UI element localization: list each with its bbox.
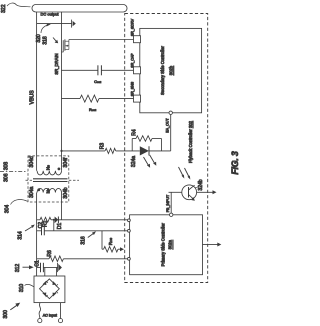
pin SR_CAP xyxy=(134,67,141,74)
svg-text:306: 306 xyxy=(4,173,10,182)
pin SR_SNS xyxy=(134,95,141,102)
diode bridge TL xyxy=(43,281,47,285)
resistor R1 xyxy=(40,217,51,222)
transistor phototransistor 324b xyxy=(182,185,197,200)
flyback controller dashed box 302 xyxy=(125,14,208,283)
diode bars xyxy=(46,281,48,283)
junction dot snubber xyxy=(53,219,55,221)
diode bridge TR xyxy=(52,281,56,285)
svg-text:SR_DRAIN: SR_DRAIN xyxy=(54,53,59,74)
svg-text:Rout: Rout xyxy=(89,107,96,112)
bridge diamond xyxy=(40,279,60,299)
svg-text:R6: R6 xyxy=(47,250,53,257)
svg-text:304d: 304d xyxy=(29,156,35,167)
winding Np (primary) xyxy=(37,188,61,192)
svg-text:D1: D1 xyxy=(57,223,63,230)
svg-text:C1: C1 xyxy=(35,260,41,267)
svg-text:R3: R3 xyxy=(100,143,106,150)
diode bridge BR xyxy=(53,293,57,297)
svg-text:304a: 304a xyxy=(29,187,35,198)
wire feedback main xyxy=(62,150,106,152)
polarity dot secondary xyxy=(58,168,61,171)
primary side controller box 302a xyxy=(130,215,203,275)
wire primary left terminal xyxy=(36,193,38,277)
svg-text:VBUS: VBUS xyxy=(30,90,36,105)
pin SR_GDRV xyxy=(134,36,141,43)
polarity dot primary xyxy=(37,188,40,191)
gate lead to rail xyxy=(62,51,64,53)
pin EA_OUT node xyxy=(169,111,172,114)
capacitor C2 branch xyxy=(53,220,55,231)
wire to ground (top) xyxy=(37,23,72,25)
pin primary 1 xyxy=(127,219,130,222)
svg-text:RCS: RCS xyxy=(108,238,113,245)
diode D1 xyxy=(55,217,59,224)
svg-text:314: 314 xyxy=(18,231,24,240)
svg-text:316: 316 xyxy=(80,236,86,245)
svg-text:C2: C2 xyxy=(38,222,44,229)
leader arrow 318 xyxy=(53,38,56,42)
resistor R3 xyxy=(105,148,116,153)
bulk stub with arrow xyxy=(65,45,69,47)
wire SR_GDRV xyxy=(69,39,134,41)
svg-text:DC output: DC output xyxy=(40,12,59,17)
transformer core xyxy=(33,178,68,180)
pin connector vertical xyxy=(68,40,70,50)
wire phototransistor right with arrow xyxy=(197,191,213,193)
diode bridge BL xyxy=(42,293,46,297)
arrow output right xyxy=(203,244,218,246)
winding Ns (secondary) xyxy=(37,171,61,175)
svg-text:308: 308 xyxy=(4,162,10,171)
op-amp? no : secondary side controller box U302b xyxy=(140,28,202,112)
svg-text:Primary Side Controller: Primary Side Controller xyxy=(161,222,166,266)
leader 320 xyxy=(41,25,48,33)
AC terminal left xyxy=(38,319,42,323)
svg-text:FIG. 3: FIG. 3 xyxy=(230,151,240,175)
svg-text:Flyback Controller 302: Flyback Controller 302 xyxy=(188,120,193,163)
bridge top leads xyxy=(44,268,46,277)
svg-text:R4: R4 xyxy=(132,129,138,136)
svg-text:318: 318 xyxy=(42,36,48,45)
svg-text:AC input: AC input xyxy=(43,313,57,317)
svg-text:304f: 304f xyxy=(63,157,69,167)
source stub xyxy=(65,49,69,51)
phototransistor light arrows xyxy=(179,167,183,176)
ground (top) xyxy=(71,20,73,28)
svg-text:322: 322 xyxy=(1,4,7,13)
svg-text:312: 312 xyxy=(15,264,21,273)
svg-text:324a: 324a xyxy=(131,156,137,167)
junction dot rail/feedback wire xyxy=(60,150,62,152)
svg-text:SR_CAP: SR_CAP xyxy=(131,53,135,68)
svg-text:SR_SNS: SR_SNS xyxy=(131,81,135,96)
svg-text:302b: 302b xyxy=(169,65,174,75)
AC terminal right xyxy=(58,319,62,323)
wire primary right terminal xyxy=(61,193,63,220)
svg-text:SR_GDRV: SR_GDRV xyxy=(131,18,135,36)
svg-text:Secondary Side Controller: Secondary Side Controller xyxy=(160,46,165,95)
pin primary 3 xyxy=(127,257,130,260)
svg-text:324b: 324b xyxy=(198,179,204,190)
wire EA_OUT vertical xyxy=(170,115,172,151)
drain stub xyxy=(65,40,69,42)
svg-text:NS: NS xyxy=(46,165,51,170)
gate bar xyxy=(62,40,64,52)
resistor Rout xyxy=(80,95,99,102)
svg-text:310: 310 xyxy=(19,284,25,293)
capacitor Cout xyxy=(97,65,99,75)
svg-text:320: 320 xyxy=(36,34,42,43)
isolation barrier dashes left xyxy=(0,171,28,173)
svg-text:Cout: Cout xyxy=(94,79,101,84)
AC lead left xyxy=(39,303,41,319)
wire SR_SNS xyxy=(62,98,81,100)
transformer dashed box 304 xyxy=(28,156,69,202)
pin FB_INPUT xyxy=(170,213,173,216)
wire snubber row xyxy=(37,219,40,221)
transistor SR FET 318 xyxy=(62,39,69,52)
svg-text:FB_INPUT: FB_INPUT xyxy=(166,194,170,212)
resistor R6 row xyxy=(37,258,49,260)
capacitor C1 to ground xyxy=(37,267,41,269)
svg-text:304: 304 xyxy=(5,205,11,214)
wire SR_DRAIN rail xyxy=(61,12,63,171)
AC lead right xyxy=(60,303,62,319)
svg-text:EA_OUT: EA_OUT xyxy=(166,118,170,133)
svg-text:302a: 302a xyxy=(168,239,173,249)
isolation barrier dashes right xyxy=(69,179,79,181)
bridge rectifier 310 xyxy=(34,276,65,303)
wire phototransistor left xyxy=(169,191,182,193)
svg-text:NP: NP xyxy=(46,188,51,193)
wire FB_INPUT vertical xyxy=(170,192,172,213)
channel bar xyxy=(64,39,66,50)
leader 322 xyxy=(7,3,31,7)
svg-text:304b: 304b xyxy=(63,187,69,198)
pin primary 2 xyxy=(127,229,130,232)
svg-text:300: 300 xyxy=(3,310,9,319)
resistor RCS branch xyxy=(101,231,103,249)
resistor R4 branch xyxy=(131,139,133,151)
wire SR_CAP xyxy=(62,69,98,71)
diode LED 324a xyxy=(140,146,149,155)
LED light arrows xyxy=(144,157,149,165)
DC output terminal pill 322 xyxy=(32,5,127,13)
ground (C1) xyxy=(57,263,59,272)
wire VBUS rail xyxy=(36,12,38,171)
